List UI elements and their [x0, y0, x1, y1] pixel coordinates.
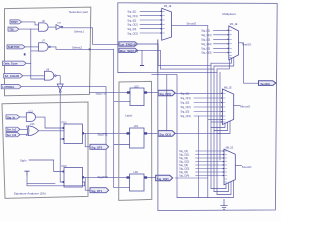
- wire mux3 loop3: [217, 121, 230, 133]
- wire SigIn to DFF2: [29, 160, 64, 172]
- wire vertical feedback: [176, 75, 178, 198]
- wire stub with terminator: [141, 50, 143, 65]
- DFF2: [62, 164, 85, 187]
- wire vertical feed left: [166, 75, 168, 131]
- wire Select2 net: [51, 47, 114, 49]
- junction tick: [24, 53, 26, 55]
- svg-text:Sig_I[4]: Sig_I[4]: [179, 170, 188, 174]
- wire mux2 out: [239, 43, 260, 83]
- input port Ser_In1: [6, 127, 20, 132]
- svg-text:U9: U9: [46, 68, 50, 71]
- svg-text:M8_1E: M8_1E: [224, 86, 232, 89]
- wire mux3 out: [234, 104, 240, 106]
- wire bot row6: [196, 168, 224, 170]
- svg-text:SigOT2: SigOT2: [98, 175, 109, 179]
- wire mux3 loop2: [214, 122, 228, 130]
- output port Sig_O[2]: [156, 175, 173, 181]
- svg-text:Sig_OT1: Sig_OT1: [91, 189, 102, 193]
- wire bot row1: [196, 150, 224, 152]
- svg-text:U10: U10: [57, 23, 62, 25]
- latch cell LD0: [127, 85, 147, 105]
- AND gate U6: [39, 20, 49, 31]
- Multiplexer box: [158, 3, 278, 211]
- wire SigOT0 net to latch: [90, 92, 131, 94]
- svg-text:Sig_OT0: Sig_OT0: [91, 146, 102, 150]
- wire mid row4: [194, 106, 222, 108]
- svg-text:Sig_O[3]: Sig_O[3]: [179, 167, 189, 171]
- svg-text:Sig_I[3]: Sig_I[3]: [180, 110, 189, 114]
- svg-text:Sig_I[2]: Sig_I[2]: [180, 101, 189, 105]
- svg-text:TestSO: TestSO: [260, 82, 270, 86]
- svg-text:SigOT0: SigOT0: [96, 92, 107, 96]
- latch cell LD1: [127, 125, 148, 148]
- wire bus tap mux3 b: [211, 121, 222, 123]
- wire SA loop upper: [27, 183, 55, 185]
- svg-text:Sig_O[3]: Sig_O[3]: [201, 51, 211, 55]
- wire port Sig_O[2] to bus: [175, 177, 208, 179]
- svg-text:Select1: Select1: [74, 30, 84, 34]
- svg-text:Sig_O[2]: Sig_O[2]: [201, 42, 211, 46]
- wire bot row8: [196, 175, 224, 177]
- Signature Analyzer box: [2, 102, 88, 198]
- top selector box: [118, 3, 158, 73]
- wire DFF1 out / SigOT1 net to latch2: [82, 132, 130, 134]
- wire bus vertical 1: [207, 26, 209, 198]
- wire to mux1: [140, 32, 162, 34]
- wire mid row5: [194, 111, 222, 113]
- ground: [221, 200, 227, 210]
- svg-text:Mux_SE[2:0]: Mux_SE[2:0]: [120, 49, 138, 53]
- wire port Sig_O[0] into mux3: [175, 92, 222, 94]
- wire XOR to DFF1: [39, 130, 64, 132]
- svg-text:Select2: Select2: [72, 45, 82, 49]
- svg-text:SmuxO: SmuxO: [187, 21, 197, 25]
- wire to mux2: [214, 38, 229, 40]
- svg-text:Sig_I[1]: Sig_I[1]: [201, 28, 210, 32]
- svg-text:SigIn: SigIn: [20, 158, 27, 162]
- wire bot row4: [196, 161, 224, 163]
- mux pin marks: [162, 11, 231, 182]
- svg-text:Sig_I[2]: Sig_I[2]: [201, 37, 210, 41]
- svg-text:M6_1E: M6_1E: [164, 5, 172, 8]
- input port Lat_EN dark: [119, 42, 138, 47]
- svg-text:TestSO: TestSO: [242, 42, 252, 46]
- svg-text:U7: U7: [42, 40, 46, 43]
- wire bus vertical 5: [219, 72, 221, 160]
- input port Sig_In: [6, 115, 20, 120]
- svg-text:U6: U6: [42, 20, 46, 23]
- output port TestSO: [259, 81, 276, 86]
- svg-text:Sig_O[3]: Sig_O[3]: [127, 31, 137, 35]
- mux M4: [224, 147, 235, 185]
- svg-text:Sig_I[3]: Sig_I[3]: [179, 163, 188, 167]
- svg-text:Sig_O[3]: Sig_O[3]: [180, 114, 190, 118]
- svg-text:Sig_O[2]: Sig_O[2]: [179, 160, 189, 164]
- wire bus tap mux3 a: [208, 119, 223, 121]
- wire mux4 loop3: [217, 182, 231, 195]
- wire bus vertical 2: [210, 63, 212, 188]
- input port SA_CLEAR: [4, 74, 23, 79]
- svg-text:Sig_O[1]: Sig_O[1]: [179, 153, 189, 157]
- wire to mux1: [140, 28, 162, 30]
- input port Ser_In2: [6, 133, 20, 138]
- wire TRST to U6: [22, 22, 39, 25]
- wire bot row2: [196, 154, 224, 156]
- svg-text:SigOT1: SigOT1: [98, 133, 109, 137]
- svg-text:Signature Analyzer (SA): Signature Analyzer (SA): [14, 191, 46, 195]
- wire to mux1: [140, 23, 162, 25]
- wire SHIFTDR to U7: [25, 46, 38, 48]
- wire mid feedback vertical: [198, 116, 200, 198]
- wire mux4 loop4: [177, 181, 234, 198]
- wire to mux2: [214, 52, 229, 54]
- wire Sig_In to U12: [20, 116, 27, 118]
- input port Data_Scan: [3, 61, 27, 66]
- svg-text:Sig_O[2]: Sig_O[2]: [180, 105, 190, 109]
- svg-text:Multiplexer: Multiplexer: [222, 12, 236, 16]
- AND gate U12: [26, 110, 35, 121]
- svg-text:Ser_In2: Ser_In2: [7, 133, 17, 137]
- wire to mux2: [214, 29, 229, 31]
- wire DFF2 out / SigOT2 net to latch3: [82, 176, 130, 178]
- wire U6 to inverter: [49, 26, 56, 28]
- mux M3: [222, 86, 233, 124]
- wire mux2 loop3: [217, 60, 229, 69]
- svg-text:M8_1E: M8_1E: [226, 147, 234, 150]
- wire mux3 loop1: [211, 123, 225, 127]
- svg-text:Ser_In1: Ser_In1: [7, 128, 17, 132]
- wire U12 to DFF1 D: [36, 117, 64, 128]
- output port SigOT0b: [90, 144, 109, 149]
- inverter U10: [56, 23, 63, 30]
- svg-text:Sig_O[1]: Sig_O[1]: [127, 14, 137, 18]
- svg-text:Sig_O[4]: Sig_O[4]: [179, 174, 189, 178]
- wire clock into SA: [60, 93, 64, 183]
- svg-text:TDI: TDI: [9, 27, 14, 31]
- svg-text:Lat_EN[2:0]: Lat_EN[2:0]: [120, 43, 137, 47]
- svg-text:SA_CLEAR: SA_CLEAR: [5, 74, 20, 78]
- input port SHIFTDR: [7, 45, 25, 49]
- wire to mux1: [140, 19, 162, 21]
- svg-text:Sig_O[2]: Sig_O[2]: [157, 177, 169, 181]
- svg-text:SHIFTDR: SHIFTDR: [8, 45, 20, 49]
- svg-text:Sig_O[0]: Sig_O[0]: [159, 92, 171, 96]
- wire Lat_EN route: [138, 44, 159, 65]
- svg-text:Sig_I[3]: Sig_I[3]: [201, 46, 210, 50]
- wire Mux_SEL route: [138, 50, 161, 69]
- latch cell LD2: [127, 171, 148, 191]
- XOR gate U13: [27, 123, 39, 136]
- svg-text:Sig_O[1]: Sig_O[1]: [159, 132, 171, 136]
- input port LATNSEL: [1, 84, 21, 89]
- svg-text:Sig_I[1]: Sig_I[1]: [179, 149, 188, 153]
- wire to mux1: [140, 15, 162, 17]
- svg-text:Data_Scan: Data_Scan: [4, 62, 18, 66]
- wire to mux2: [214, 47, 229, 49]
- wire mux2 loop2: [214, 57, 234, 66]
- wire bus row1: [158, 64, 211, 66]
- wire mux2 loop1: [211, 59, 232, 64]
- mux M2: [229, 23, 239, 60]
- svg-text:Sig_I[2]: Sig_I[2]: [127, 18, 136, 22]
- svg-text:Selection part: Selection part: [69, 10, 88, 14]
- input port TRST: [10, 20, 22, 24]
- wire bot row5: [196, 164, 224, 166]
- svg-text:SmuxO: SmuxO: [242, 165, 252, 169]
- output port Sig_O[0]: [158, 90, 175, 96]
- NAND gate U7: [39, 40, 51, 52]
- output port Sig_O[1]: [158, 131, 175, 137]
- wire mid row3: [194, 102, 222, 104]
- wire port Sig_O[1] to bus: [175, 132, 220, 134]
- svg-text:Sig_I[3]: Sig_I[3]: [127, 27, 136, 31]
- output port SigOT1b: [90, 188, 109, 193]
- svg-text:Sig_I[1]: Sig_I[1]: [180, 92, 189, 96]
- wire mid row2: [194, 97, 222, 99]
- mux input pin dots: [160, 11, 228, 176]
- wire Select1 net: [63, 28, 119, 45]
- wire branch to SA out port2: [85, 177, 90, 190]
- wire SA feedback loop: [27, 175, 85, 186]
- power tap symbol: [25, 171, 29, 175]
- junction at box edge: [89, 48, 91, 50]
- Latch box: [119, 81, 152, 200]
- wire bus row2: [161, 68, 215, 70]
- wire mux4 loop1: [211, 184, 226, 189]
- wire bus vertical 4: [216, 69, 218, 195]
- svg-text:Sig_O[1]: Sig_O[1]: [180, 96, 190, 100]
- NAND gate U9: [44, 68, 56, 80]
- Selection part box: [5, 7, 91, 96]
- input port TDI: [8, 27, 19, 31]
- input port Mux_SEL dark: [119, 48, 138, 53]
- wire LD2 out to port: [147, 177, 156, 179]
- svg-text:Sig_O[2]: Sig_O[2]: [127, 23, 137, 27]
- wire tap down to U7 and U9: [31, 29, 45, 79]
- wire branch to SA out port1: [85, 133, 90, 147]
- svg-text:LATNSEL: LATNSEL: [2, 85, 15, 89]
- wire LD1 out to port: [147, 132, 158, 134]
- svg-text:Sig_O[1]: Sig_O[1]: [201, 33, 211, 37]
- wires Ser ports to XOR: [20, 129, 27, 134]
- svg-text:U13: U13: [30, 123, 35, 126]
- wire LD0 out to port: [147, 92, 158, 94]
- wire U9 out to vertical inverter: [56, 76, 60, 84]
- wire bot row3: [196, 157, 224, 159]
- wire Data_Scan: [26, 62, 31, 64]
- svg-text:M4_1E: M4_1E: [230, 23, 238, 26]
- svg-text:Latch: Latch: [125, 113, 132, 117]
- wire bus vertical 3: [213, 66, 215, 192]
- wire mux4 loop2: [214, 183, 229, 192]
- wire bus row3: [158, 71, 217, 73]
- wire LATNSEL to node down: [21, 87, 106, 178]
- inverter U11 vertical: [57, 84, 63, 92]
- wire latch enable rail: [114, 49, 130, 187]
- svg-text:Sig_In: Sig_In: [7, 115, 15, 119]
- wire mux4 out: [235, 164, 241, 166]
- wire to mux2: [214, 43, 229, 45]
- svg-text:TRST: TRST: [11, 20, 18, 24]
- wire bot row7: [196, 171, 224, 173]
- svg-text:Sig_I[2]: Sig_I[2]: [179, 156, 188, 160]
- wire SA_CLEAR to U9: [23, 75, 45, 77]
- wire to mux1: [140, 10, 162, 12]
- wire TDI to U6: [19, 28, 39, 30]
- wire bus row4: [152, 74, 177, 76]
- mux M1: [162, 5, 172, 40]
- wire mid row6: [194, 115, 222, 117]
- wire to mux2: [214, 34, 229, 36]
- svg-text:Sig_I[1]: Sig_I[1]: [127, 10, 136, 14]
- wire SmuxO net: [172, 25, 208, 27]
- DFF1: [62, 120, 85, 143]
- svg-text:MmuxO: MmuxO: [240, 104, 251, 108]
